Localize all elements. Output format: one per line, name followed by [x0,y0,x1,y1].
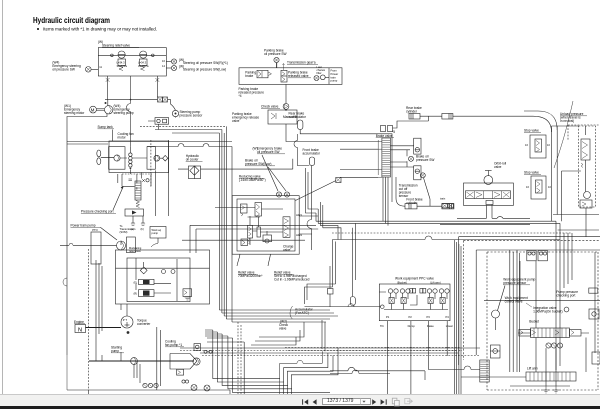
svg-text:L=34.3: L=34.3 [117,61,126,65]
fan relief spring [136,201,140,208]
valve block top rail [484,261,600,330]
wire engine supply drop [67,355,230,394]
pilot boxes top right [527,251,548,261]
svg-text:(.16±0.08MPa/50°): (.16±0.08MPa/50°) [239,178,266,182]
work equipment dashed enclosure [487,252,598,390]
transmission cutoff sensor circle [420,173,425,178]
unload bottom box [580,200,592,208]
PPC valve box [379,284,450,321]
svg-text:*5: *5 [392,130,395,134]
svg-text:Steering oil pressure SW(Low): Steering oil pressure SW(Low) [183,68,226,72]
orbitroll outer box [464,183,514,205]
svg-text:Check valve: Check valve [261,105,279,109]
stop valve upper [525,135,550,158]
transmission cut off label [399,184,418,199]
svg-text:valve: valve [232,119,240,123]
emergency steering pump [105,106,113,114]
rear brake cylinder left [409,114,420,120]
svg-text:brake: brake [245,74,253,78]
orbitroll spool [466,191,511,199]
svg-text:A022: A022 [296,233,303,237]
emergency brake SW circle pair [262,155,290,197]
emergency steering pump label [114,104,134,115]
fan relief drains [131,216,146,231]
toolbar last page btn [381,399,387,404]
pressure switch SW1 [86,65,103,72]
supply lines down left [96,260,102,361]
nested elbow routes right [280,348,338,395]
svg-text:39.2MPa: 39.2MPa [138,64,149,68]
parking brake label [245,71,256,79]
svg-text:P2: P2 [409,315,413,319]
relief valve labels below tcv [238,271,263,279]
brake oil pressure SW circle [409,156,414,161]
fan motor circle [154,155,160,161]
svg-text:steering motor: steering motor [64,111,85,115]
PPC damper pair B [420,289,426,294]
steering oil pressure SW (Low) [171,65,226,72]
svg-text:Stop valve: Stop valve [524,171,539,175]
tank symbols bottom right [543,386,559,393]
wire parking brake valve down [285,84,287,140]
svg-text:Dump: Dump [408,324,416,328]
steering pump pressure sensor label [180,110,204,118]
port labels 16 14 [162,59,165,68]
pagebox separator [360,399,362,405]
PPC internal rails [379,292,448,310]
filter circles [281,75,329,81]
box edge verticals near check valve [322,320,325,351]
transmission strainer diamond [140,262,147,274]
tcv small valve bottom left [241,239,248,246]
svg-text:released pressure: released pressure [239,91,265,95]
svg-text:16: 16 [526,185,529,189]
parking brake oil pressure SW circle [274,57,279,67]
orbitroll drop wires [457,205,497,219]
fan shaft [101,157,114,159]
wire tcv right exit diagonal [295,181,336,235]
main valve dashed boundary [464,241,600,360]
central vertical bus [219,126,232,322]
wire sw to gear box top [276,63,278,68]
torque converter label [137,319,151,327]
svg-text:oil cooler: oil cooler [186,158,200,162]
hydraulic oil cooler label [186,154,203,162]
front brake cylinder right [442,204,454,209]
bullet note [37,28,39,30]
ATC accumulator capsule [350,223,355,305]
horizontal mid bus [316,221,572,239]
wire sensor to bus [155,129,222,131]
relief valve V1 [117,51,128,71]
unload dashed frame [568,125,600,140]
unload pressure label [560,112,587,123]
wire relief box right branch down [158,97,168,102]
clutch wires [136,258,177,301]
cooling fan pump circle [114,155,120,161]
fan check diamond [163,155,168,161]
brake oil pressure SW low label [245,159,275,167]
sump tank label [98,125,115,129]
center dashed lines [285,348,460,351]
svg-text:pump: pump [331,80,338,83]
riser bundle right of PPC [455,240,462,395]
work equipment control valve label [505,296,532,307]
svg-text:pressure sensor: pressure sensor [503,281,527,285]
starting pump label [111,346,124,354]
cooling fan pump label [165,340,184,348]
fan pump sub box [109,147,125,170]
svg-text:10: 10 [548,185,551,189]
svg-text:oil pressure SW: oil pressure SW [52,68,75,72]
parking brake emergency release valve label [232,112,259,123]
orbitroll handwheel [484,171,493,185]
filter circle B [204,385,210,391]
svg-text:train: train [440,196,446,200]
toolbar page icon 1 [392,398,399,406]
check valve symbol [283,104,289,110]
cooling fan valve label [118,132,134,140]
fan relief stack [129,147,132,170]
wires under shaft [121,241,160,390]
svg-text:Stop valve: Stop valve [524,129,539,133]
relief valve V2 [138,51,149,71]
orifice X2 below relief box [155,78,159,82]
unload wires [552,126,600,237]
lift arm feed lines [461,333,589,377]
wire orbitroll right with hop [440,217,530,225]
motor M [90,106,97,113]
emergency brake oil pressure SW label [253,147,286,155]
right edge small box A [589,288,598,293]
svg-text:10: 10 [547,143,550,147]
svg-text:P3: P3 [427,315,431,319]
accumulator ATC label [290,306,314,319]
PPC pilot unit 4 [439,289,449,304]
main drive shaft [89,360,194,362]
power train pump circle [117,241,126,250]
tcv center spool [257,217,260,237]
orbitroll sub box [486,201,493,205]
hydraulic oil cooler box [189,166,201,179]
svg-text:Transmission gear'a: Transmission gear'a [287,61,316,65]
lift arm feed pair [330,366,480,380]
inner boundary corner [476,250,600,355]
svg-text:A021: A021 [296,213,303,217]
fan relief valve body [125,209,144,216]
wire front cylinders [396,177,442,206]
rear brake cylinder right [442,114,453,120]
fan pump enclosure [170,354,197,370]
svg-text:39.2MPa: 39.2MPa [117,64,128,68]
PT boxes left [440,196,453,208]
rear brake accumulator symbol [298,120,393,202]
emergency steering motor label [64,104,85,115]
svg-text:pump: pump [152,232,159,235]
steering pump pressure sensor circle [172,110,178,116]
PPC pilot unit 2 [400,289,410,304]
work equip pump wire [151,238,158,247]
page left edge [2,0,4,394]
dashed boundary cooling fan [150,140,152,188]
center horizontal lines to tcv [219,310,338,322]
svg-text:train: train [331,75,337,79]
brake accessory box lower [414,166,421,180]
bus right risers down [556,221,572,370]
dashed wire from left [140,125,226,127]
parking brake release valve spool [281,64,311,83]
bucket end box right [569,330,581,337]
PPC pilot unit 3 [427,289,437,304]
torque converter [121,316,133,328]
svg-text:1.96MPa(On bucket): 1.96MPa(On bucket) [533,310,562,314]
svg-text:Lower: Lower [446,324,453,328]
unload pilot circle [584,192,591,199]
bucket spool block [531,328,570,338]
power train pump label [71,224,118,241]
transmission control valve outer box [232,196,299,255]
pump pressure checking port label [556,290,578,298]
tc drain dot [127,331,130,334]
svg-text:oil pressure SW: oil pressure SW [264,52,287,56]
wire tcv bottom drops [237,254,271,266]
svg-text:Lift arm: Lift arm [527,367,538,371]
wire pump down to sump [67,114,113,355]
svg-text:Brake valve: Brake valve [376,134,393,138]
svg-text:checking port: checking port [556,294,575,298]
parking brake actuator [257,70,272,78]
steering oil pressure SW (R) [171,58,227,65]
F clutch [134,279,155,284]
lift arm spool block [526,372,576,381]
starting pump circle [131,358,138,365]
pressure checking port label [81,187,124,214]
front brake accumulator label [303,148,321,156]
front brake cylinder label [406,198,423,206]
engine label [74,320,85,324]
toolbar first page btn [303,399,309,404]
bus left risers [306,168,323,228]
tcv modulating valve [248,225,253,244]
tcv solenoid bottom [263,235,272,243]
wire top rail in relief box [98,54,166,56]
svg-text:valve: valve [494,165,502,169]
steering relief valve box [98,48,166,76]
PPC output drops [387,321,447,395]
svg-text:(SOM): (SOM) [120,230,128,234]
svg-text:pressure SW: pressure SW [416,158,434,162]
svg-text:accumulator: accumulator [289,115,307,119]
tcv spring valve A [241,204,248,216]
steering valve element [480,360,489,382]
bucket pilot circles [546,343,563,348]
transmission case box [116,250,210,304]
right edge small box B [589,309,599,319]
shaft M to pump [96,109,104,111]
work equipment pump pressure sensor label [503,278,535,286]
svg-text:pressure sensor: pressure sensor [180,114,204,118]
tcv internal wires [237,208,283,246]
check valve W2 label [279,320,288,331]
fan valve sub box [147,147,155,170]
svg-text:Raise: Raise [427,324,434,328]
wire box to SW circles [166,61,171,63]
last chance filter label [317,65,326,75]
orbitroll label [494,162,507,170]
reducing valve label [239,175,266,183]
work equipment PPC valve label [395,277,441,285]
svg-text:oil pressure SW: oil pressure SW [257,150,280,154]
work equipment pump box [150,227,166,239]
node circles on rail [111,54,114,57]
bucket end box left [519,330,531,337]
svg-text:P1: P1 [386,315,390,319]
wire bus corners [172,132,219,134]
parking brake assembly box [239,68,342,85]
svg-text:pressure SW(Low): pressure SW(Low) [245,162,271,166]
parking brake released pressure label [239,87,265,98]
svg-text:PTO: PTO [92,228,97,232]
orifice X1 below relief box [106,78,110,82]
tcv reducing valve [255,203,262,218]
wire tc up to transmission [121,304,127,316]
lube relief valve [183,289,192,300]
emergency release valve box [268,110,297,124]
to transmission label [120,224,136,234]
wires brake valve to boxes [286,140,414,177]
from power train pump box [329,68,338,85]
stop valve upper label [524,129,541,133]
pagebox dropdown arrow [362,401,365,403]
right verticals [510,250,595,386]
solenoid box mid [328,266,334,307]
svg-text:(F): (F) [134,281,137,285]
wire tcv left entry [215,207,237,209]
toolbar prev btn [313,399,317,404]
svg-text:M: M [91,108,95,113]
svg-text:(b): (b) [141,227,144,231]
wire oil cooler rail [178,159,293,169]
dashed vertical left [87,249,89,390]
svg-text:Hydraulic circuit diagram: Hydraulic circuit diagram [33,15,110,25]
svg-text:16: 16 [525,143,528,147]
modulating box [127,237,142,253]
check valve label [261,105,280,109]
svg-text:accumulator: accumulator [303,152,321,156]
svg-text:Items marked with *1 in drawin: Items marked with *1 in drawing may or m… [43,27,157,32]
fan symbol [97,150,101,165]
rear brake cylinder label [406,106,422,114]
charge valve label [283,245,294,253]
stop valve lower label [524,171,541,175]
svg-text:70MPa/3200min*: 70MPa/3200min* [238,274,263,278]
wire sensor drop [148,100,176,130]
svg-text:Steering oil pressure SW(R)(*1: Steering oil pressure SW(R)(*1) [183,61,228,65]
svg-text:Cut in -1.96MPa/reduced: Cut in -1.96MPa/reduced [274,278,310,282]
svg-text:P T: P T [123,318,128,322]
svg-text:Pressure checking port: Pressure checking port [81,210,114,214]
checking dashed branch [122,174,152,186]
emergency steering oil pressure SW label [52,61,81,72]
bus hops [385,346,449,349]
svg-text:Steering relief valve: Steering relief valve [102,44,130,48]
wire risers center-bottom [205,330,330,394]
svg-text:16: 16 [162,59,165,63]
svg-text:*4: *4 [239,94,242,98]
long rails through valve zone [182,225,318,253]
svg-text:cylinder: cylinder [406,201,418,205]
svg-text:Power train pump: Power train pump [71,224,96,228]
parking brake oil pressure SW label [264,49,287,57]
elbow routes upper [251,322,304,345]
svg-text:valve: valve [283,248,291,252]
unload valve dashed box [579,126,596,207]
svg-text:fan pump *1: fan pump *1 [165,343,182,347]
filter circle A [191,385,197,391]
brake accessory box upper [414,138,421,154]
brake oil pressure SW label [416,155,434,163]
toolbar page icon 2 [405,398,413,403]
PTO box [91,228,101,264]
svg-text:filter: filter [317,71,322,75]
PPC inlet port [305,304,385,309]
right box far edge [592,352,600,364]
svg-text:Sump tank: Sump tank [98,125,114,129]
triple gauge circles [143,383,158,387]
svg-text:cylinder: cylinder [406,110,418,114]
transmission gear'a label [287,61,318,65]
PPC pilot unit 1 [388,289,398,304]
brake valve label [376,130,395,138]
drain circles [182,380,189,383]
wire brake valve drops [383,177,388,226]
cooling fan box [109,141,169,173]
wire long down from box to cooling fan area [127,76,131,147]
svg-text:Engine: Engine [74,320,84,324]
inline circles right [204,350,212,353]
brake pedal parts [381,126,393,132]
svg-text:L=34.3: L=34.3 [138,61,147,65]
svg-text:N: N [78,327,82,333]
svg-text:valve: valve [279,327,287,331]
vertical wire right of fan cluster [168,140,170,216]
main valve solid boundary [459,237,600,365]
svg-text:steering pump: steering pump [114,111,134,115]
svg-text:Power: Power [331,72,339,76]
dashed verticals center [238,322,241,394]
brake valve body [378,138,390,177]
svg-text:Work equipment PPC valve: Work equipment PPC valve [395,277,434,281]
stop valve lower [526,176,551,199]
bottom rail [510,385,570,387]
unload valve spool [581,139,590,168]
left wire hop [63,278,67,390]
R clutch [134,290,155,297]
PPC port labels [380,315,453,328]
integration valve label [533,306,569,314]
rear brake accumulator label [289,111,307,119]
svg-text:11: 11 [99,65,102,69]
sensor junction box [155,118,169,125]
wire rear cylinders [393,116,534,128]
svg-text:14: 14 [162,64,165,68]
left horizontal wires to fan box [67,142,232,145]
svg-text:Bucket: Bucket [529,319,539,323]
lower horizontal bus [180,348,480,356]
fan internal wires [120,158,168,179]
front brake cylinder left [405,204,417,209]
fan relief main valve [135,181,141,200]
